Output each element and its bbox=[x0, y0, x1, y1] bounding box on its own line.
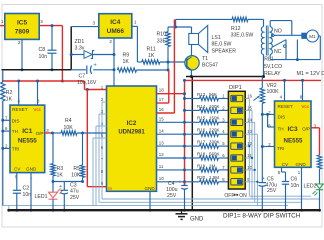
svg-text:LED2: LED2 bbox=[304, 184, 317, 190]
svg-text:+: + bbox=[59, 184, 62, 190]
svg-text:R11: R11 bbox=[147, 47, 156, 53]
svg-text:10n: 10n bbox=[39, 54, 48, 60]
svg-text:14: 14 bbox=[159, 128, 164, 133]
svg-text:GND: GND bbox=[145, 186, 156, 191]
svg-text:LED1: LED1 bbox=[35, 194, 48, 200]
svg-text:DIS: DIS bbox=[12, 118, 20, 123]
svg-text:47u: 47u bbox=[70, 189, 79, 195]
svg-text:8E,0.5W: 8E,0.5W bbox=[212, 42, 232, 48]
svg-text:25V: 25V bbox=[167, 193, 177, 199]
svg-text:NO: NO bbox=[274, 28, 282, 34]
svg-text:17: 17 bbox=[159, 97, 164, 102]
svg-text:ZD1: ZD1 bbox=[75, 39, 85, 45]
svg-text:10n: 10n bbox=[291, 183, 300, 189]
svg-text:UM66: UM66 bbox=[107, 28, 125, 35]
svg-text:TH: TH bbox=[278, 127, 284, 132]
svg-text:56K: 56K bbox=[209, 92, 217, 97]
svg-text:NE555: NE555 bbox=[284, 138, 303, 145]
svg-text:1.5M: 1.5M bbox=[209, 175, 219, 180]
svg-text:1K: 1K bbox=[6, 97, 13, 103]
svg-text:R19: R19 bbox=[197, 163, 206, 168]
svg-text:11: 11 bbox=[159, 164, 164, 169]
svg-text:1: 1 bbox=[134, 20, 137, 25]
svg-text:13: 13 bbox=[159, 140, 164, 145]
svg-text:33E: 33E bbox=[157, 39, 167, 45]
svg-text:UDN2981: UDN2981 bbox=[118, 129, 145, 135]
svg-text:IC2: IC2 bbox=[127, 120, 137, 127]
svg-text:100K: 100K bbox=[209, 104, 220, 109]
svg-text:10: 10 bbox=[159, 176, 164, 181]
svg-text:16: 16 bbox=[159, 107, 164, 112]
svg-text:TRI: TRI bbox=[12, 146, 19, 151]
svg-text:1M: 1M bbox=[209, 163, 216, 168]
svg-text:GND: GND bbox=[296, 162, 307, 167]
svg-text:12: 12 bbox=[159, 152, 164, 157]
svg-text:C7: C7 bbox=[79, 74, 86, 80]
svg-text:DIS: DIS bbox=[278, 114, 286, 119]
svg-text:150K: 150K bbox=[209, 116, 220, 121]
svg-text:ON: ON bbox=[239, 193, 247, 199]
svg-text:10n: 10n bbox=[23, 192, 32, 198]
svg-text:18: 18 bbox=[159, 88, 164, 93]
svg-text:+: + bbox=[94, 63, 97, 69]
svg-text:O/P: O/P bbox=[36, 131, 44, 136]
svg-text:2: 2 bbox=[18, 40, 21, 45]
svg-text:R14: R14 bbox=[197, 104, 206, 109]
svg-text:15: 15 bbox=[159, 117, 164, 122]
svg-text:1K: 1K bbox=[123, 59, 130, 65]
svg-text:IC3: IC3 bbox=[287, 126, 298, 133]
svg-text:10K: 10K bbox=[71, 173, 81, 179]
svg-text:220K: 220K bbox=[209, 128, 220, 133]
svg-text:25V: 25V bbox=[267, 188, 277, 194]
svg-text:Vcc: Vcc bbox=[33, 107, 41, 112]
svg-text:R4: R4 bbox=[65, 118, 72, 124]
svg-text:CV: CV bbox=[14, 167, 21, 172]
svg-text:1: 1 bbox=[1, 19, 4, 24]
svg-text:33E,0.5W: 33E,0.5W bbox=[231, 33, 254, 39]
svg-text:LS1: LS1 bbox=[212, 35, 221, 41]
svg-text:330K: 330K bbox=[209, 140, 220, 145]
svg-text:3: 3 bbox=[40, 19, 43, 24]
svg-text:R16: R16 bbox=[197, 128, 206, 133]
svg-text:100K: 100K bbox=[267, 89, 280, 95]
svg-text:NE555: NE555 bbox=[18, 138, 37, 145]
svg-text:DIP1: DIP1 bbox=[229, 85, 242, 91]
svg-text:RESET: RESET bbox=[278, 104, 294, 109]
svg-text:7809: 7809 bbox=[15, 29, 30, 36]
svg-text:TH: TH bbox=[12, 129, 18, 134]
svg-text:T1: T1 bbox=[202, 56, 208, 62]
svg-text:10u,16V: 10u,16V bbox=[77, 80, 97, 86]
svg-text:Vcc: Vcc bbox=[301, 104, 309, 109]
svg-text:+: + bbox=[262, 176, 265, 182]
svg-text:R2: R2 bbox=[6, 90, 13, 96]
svg-text:C8: C8 bbox=[39, 47, 46, 53]
svg-text:R18: R18 bbox=[197, 151, 206, 156]
svg-text:+: + bbox=[179, 180, 182, 186]
svg-text:IC5: IC5 bbox=[17, 20, 28, 27]
svg-text:CV: CV bbox=[282, 162, 289, 167]
svg-text:RESET: RESET bbox=[12, 107, 28, 112]
svg-text:R13: R13 bbox=[197, 92, 206, 97]
svg-text:GND: GND bbox=[190, 216, 204, 222]
svg-text:RELAY: RELAY bbox=[264, 71, 281, 77]
svg-text:25V: 25V bbox=[70, 195, 80, 201]
svg-text:560K: 560K bbox=[209, 151, 220, 156]
svg-text:10K: 10K bbox=[64, 125, 74, 131]
svg-text:R12: R12 bbox=[231, 26, 241, 32]
svg-text:2: 2 bbox=[109, 39, 112, 44]
svg-text:IC1: IC1 bbox=[22, 128, 33, 135]
svg-text:15: 15 bbox=[247, 105, 252, 110]
svg-text:NC: NC bbox=[274, 49, 282, 55]
svg-text:3: 3 bbox=[93, 21, 96, 26]
svg-text:BC547: BC547 bbox=[202, 63, 218, 69]
svg-text:C3: C3 bbox=[70, 182, 77, 188]
svg-text:M1 = 12V DC MOTOR: M1 = 12V DC MOTOR bbox=[297, 71, 324, 77]
svg-text:GND: GND bbox=[26, 167, 37, 172]
svg-text:C2: C2 bbox=[23, 185, 30, 191]
svg-text:5V,1CO: 5V,1CO bbox=[264, 64, 282, 70]
svg-text:DIP1= 8-WAY DIP SWITCH: DIP1= 8-WAY DIP SWITCH bbox=[223, 213, 301, 220]
svg-text:3.3v: 3.3v bbox=[75, 46, 85, 52]
svg-text:O/P: O/P bbox=[302, 127, 310, 132]
svg-text:R5: R5 bbox=[73, 166, 80, 172]
svg-text:16: 16 bbox=[247, 94, 252, 99]
svg-text:C6: C6 bbox=[291, 177, 298, 183]
svg-text:M1: M1 bbox=[309, 34, 316, 40]
svg-text:IC4: IC4 bbox=[110, 19, 121, 26]
svg-text:R9: R9 bbox=[123, 53, 130, 59]
svg-text:R10: R10 bbox=[156, 32, 166, 38]
svg-text:1K: 1K bbox=[57, 173, 64, 179]
svg-text:1K: 1K bbox=[148, 53, 155, 59]
svg-text:R17: R17 bbox=[197, 140, 206, 145]
svg-text:R20: R20 bbox=[197, 175, 206, 180]
svg-text:In: In bbox=[108, 186, 112, 191]
svg-text:TRI: TRI bbox=[277, 146, 284, 151]
svg-text:SPEAKER: SPEAKER bbox=[212, 48, 237, 54]
svg-text:R3: R3 bbox=[57, 166, 64, 172]
svg-text:R15: R15 bbox=[197, 116, 206, 121]
svg-text:OFF: OFF bbox=[224, 193, 234, 199]
